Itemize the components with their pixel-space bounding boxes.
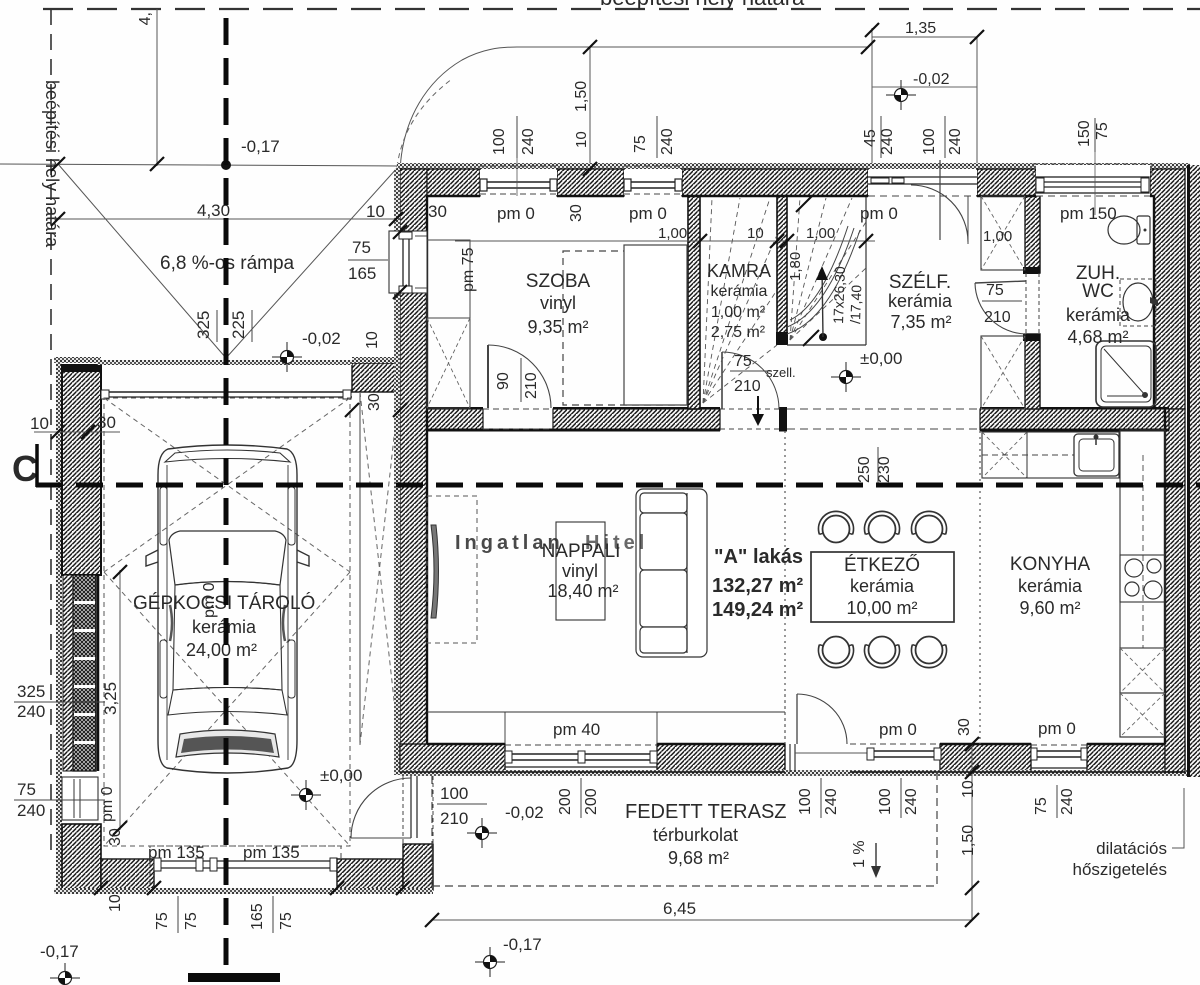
parking X dashes upper: [104, 398, 350, 572]
svg-text:200: 200: [557, 788, 574, 815]
szoba/kamra wall: [688, 196, 700, 409]
svg-text:4,68 m²: 4,68 m²: [1067, 327, 1128, 347]
svg-text:325: 325: [194, 311, 213, 339]
stair tick marks: [796, 196, 812, 212]
svg-text:9,60 m²: 9,60 m²: [1019, 598, 1080, 618]
kitchen right counter: [1120, 430, 1165, 737]
svg-text:C: C: [12, 448, 38, 489]
entry closet upper: [981, 196, 1025, 270]
svg-text:Ingatlan: Ingatlan: [455, 532, 564, 554]
garage top wall right stub: [352, 363, 400, 392]
top wall pier 5 / right corner: [1150, 169, 1185, 409]
svg-text:vinyl: vinyl: [540, 293, 576, 313]
level marker +-0,00 garage: [291, 780, 321, 810]
svg-text:10,00 m²: 10,00 m²: [846, 598, 917, 618]
svg-text:7,35 m²: 7,35 m²: [890, 312, 951, 332]
svg-text:pm 135: pm 135: [243, 843, 300, 862]
garage bottom-left wall corner: [62, 824, 101, 890]
svg-text:beépítési hely határa: beépítési hely határa: [600, 0, 805, 10]
svg-text:pm 0: pm 0: [879, 720, 917, 739]
svg-text:75: 75: [1033, 797, 1050, 815]
stair walk line with arrow: [819, 333, 827, 341]
section line C horizontal: [36, 483, 1200, 488]
svg-text:/17,40: /17,40: [847, 284, 864, 324]
svg-text:75: 75: [17, 780, 36, 799]
parking space dashed outline: [104, 398, 350, 846]
bottom wall pier B: [657, 744, 785, 772]
car wheels: [160, 487, 167, 545]
svg-text:30: 30: [428, 202, 447, 221]
top wall pier 4: [977, 169, 1036, 196]
level marker -0,02 garage top: [272, 342, 302, 372]
svg-text:szell.: szell.: [766, 365, 796, 380]
svg-text:210: 210: [734, 378, 761, 395]
kamra area dim line: [455, 240, 875, 242]
terrace window pm0 100/240: [850, 743, 940, 745]
svg-text:WC: WC: [1082, 281, 1114, 302]
garage bottom windows pm135: [150, 846, 341, 890]
svg-text:210: 210: [984, 309, 1011, 326]
svg-text:kerámia: kerámia: [1018, 576, 1083, 596]
svg-text:75: 75: [278, 912, 295, 930]
top wall pier 3: [682, 169, 868, 196]
svg-text:1,35: 1,35: [905, 20, 936, 37]
car windshield front: [168, 688, 287, 716]
svg-text:240: 240: [823, 788, 840, 815]
entry door leaf + swing: [939, 160, 941, 240]
svg-text:SZOBA: SZOBA: [526, 271, 591, 292]
level marker +-0,00 szelf: [831, 362, 861, 392]
svg-text:4,: 4,: [137, 12, 154, 25]
garage left outer wall: [56, 359, 62, 894]
ramp V right diagonal: [226, 167, 398, 358]
left exterior wall main: [400, 292, 427, 745]
svg-text:vinyl: vinyl: [562, 561, 598, 581]
interior wall band segment A (szoba left): [427, 409, 483, 430]
window pm150 150/75 bath: [1036, 165, 1150, 196]
entry door 1,35 opening: [868, 170, 977, 195]
entry closet lower: [981, 336, 1025, 409]
right bath wall inner face: [1153, 196, 1155, 409]
etkezo chairs top row: [819, 511, 947, 667]
level marker -0,02 entry top: [886, 80, 916, 110]
svg-text:45: 45: [862, 129, 879, 147]
garage bottom wall segment: [101, 859, 154, 890]
svg-text:100: 100: [921, 128, 938, 155]
svg-text:térburkolat: térburkolat: [653, 825, 738, 845]
svg-text:1,00 m²: 1,00 m²: [711, 304, 766, 321]
thick inner face lines of band: [427, 429, 720, 432]
svg-text:2,75 m²: 2,75 m²: [711, 324, 766, 341]
nappali/etkezo dotted line: [784, 431, 786, 744]
svg-text:132,27 m²: 132,27 m²: [712, 575, 804, 597]
bath door 75/210 leaf+arc: [975, 283, 1026, 334]
svg-text:pm 40: pm 40: [553, 720, 600, 739]
left wall insulation: [394, 169, 400, 775]
szellozo vent arrow: [757, 396, 759, 424]
parking X dashes lower: [104, 572, 350, 846]
svg-text:240: 240: [520, 128, 537, 155]
svg-text:dilatációs: dilatációs: [1096, 839, 1167, 858]
property boundary left dashed line: [50, 9, 52, 858]
svg-text:149,24 m²: 149,24 m²: [712, 599, 804, 621]
svg-text:30: 30: [568, 204, 585, 222]
svg-text:75: 75: [352, 238, 371, 257]
svg-text:10: 10: [747, 225, 764, 242]
stair fan dashed lines stairwell: [790, 198, 800, 340]
kitchen sink: [1074, 434, 1119, 476]
sofa: [636, 489, 707, 657]
insulation band top: [397, 163, 1190, 169]
svg-text:1,50: 1,50: [960, 825, 977, 856]
svg-text:75: 75: [986, 282, 1004, 299]
svg-text:100: 100: [491, 128, 508, 155]
tv: [431, 525, 439, 618]
dim 1,35 entry: [871, 28, 873, 168]
stair winder curves: [787, 230, 860, 334]
svg-text:10: 10: [960, 780, 977, 798]
svg-text:24,00 m²: 24,00 m²: [186, 640, 257, 660]
svg-text:-0,17: -0,17: [40, 942, 79, 961]
bottom wall inner faces: [427, 743, 505, 745]
dim 4,30 line: [54, 218, 400, 220]
svg-text:Hitel: Hitel: [585, 532, 648, 554]
svg-text:325: 325: [17, 682, 45, 701]
window pm0 75/240 kamra: [624, 170, 682, 195]
interior wall band segment B: [553, 409, 720, 430]
top wall inner face lines: [427, 195, 480, 197]
coffee table: [556, 522, 605, 620]
etkezo table: [811, 552, 954, 622]
konyha window pm0 75/240: [1031, 744, 1087, 746]
svg-text:9,35 m²: 9,35 m²: [527, 317, 588, 337]
svg-text:pm 0: pm 0: [629, 204, 667, 223]
svg-text:pm 150: pm 150: [1060, 204, 1117, 223]
svg-text:10: 10: [107, 894, 124, 912]
svg-text:6,45: 6,45: [663, 899, 696, 918]
svg-text:pm 75: pm 75: [460, 247, 477, 292]
car roof lines: [173, 582, 282, 691]
bottom wall pier D / right corner: [1087, 744, 1185, 772]
svg-text:240: 240: [17, 702, 45, 721]
garage door track double line: [101, 391, 352, 393]
car front grille: [176, 730, 279, 757]
svg-text:1 %: 1 %: [851, 840, 868, 868]
svg-text:9,68 m²: 9,68 m²: [668, 848, 729, 868]
svg-text:"A" lakás: "A" lakás: [714, 546, 803, 568]
svg-text:75: 75: [632, 135, 649, 153]
svg-text:210: 210: [440, 809, 468, 828]
fedett terasz dashed outline: [431, 776, 433, 886]
dim 6,45: [432, 919, 972, 921]
svg-text:18,40 m²: 18,40 m²: [547, 581, 618, 601]
hob: [1120, 555, 1165, 602]
dim extension vertical x=157: [156, 9, 158, 166]
level line at entry: [872, 86, 977, 88]
dimension tick marks: [51, 23, 984, 927]
interior wall band segment C (bath+kitchen): [980, 409, 1169, 430]
dashed sight curve at house corner: [397, 79, 452, 167]
garage bottom wall right corner block: [403, 844, 433, 890]
svg-text:-0,17: -0,17: [241, 137, 280, 156]
svg-text:100: 100: [440, 784, 468, 803]
svg-text:75: 75: [734, 353, 752, 370]
bottom wall pier C: [940, 744, 1031, 772]
svg-text:3,25: 3,25: [101, 682, 120, 715]
svg-text:100: 100: [797, 788, 814, 815]
svg-text:pm 0: pm 0: [99, 786, 116, 822]
level marker -0,17 bottom center: [475, 947, 505, 977]
svg-text:10: 10: [366, 202, 385, 221]
svg-text:30: 30: [956, 718, 973, 736]
window pm0 100/240 szoba: [480, 170, 557, 195]
tv cabinet dashed: [427, 496, 477, 643]
etkezo chairs bottom row: [823, 637, 850, 664]
svg-text:-0,17: -0,17: [503, 935, 542, 954]
svg-text:±0,00: ±0,00: [320, 766, 362, 785]
side strip X dashes: [360, 392, 399, 745]
svg-text:75: 75: [183, 912, 200, 930]
etkezo/konyha dotted line: [979, 431, 981, 744]
svg-text:pm 0: pm 0: [860, 204, 898, 223]
window 75/165 szoba left: [400, 232, 427, 292]
level marker -0,02 terasz: [467, 818, 497, 848]
svg-text:hőszigetelés: hőszigetelés: [1072, 860, 1167, 879]
szoba closet left: [427, 240, 470, 408]
kamra door 75/210 leaf+arc: [721, 352, 723, 409]
svg-text:-0,02: -0,02: [913, 71, 950, 88]
szoba bed dashed zone: [563, 251, 686, 405]
terrace passage door 100/210: [402, 776, 404, 845]
entry/bath wall upper: [1025, 196, 1040, 273]
top wall pier 1: [400, 169, 480, 232]
car door handles: [170, 605, 172, 641]
dilatation neighbour wall: [1187, 165, 1190, 777]
property boundary top dashed line: [43, 8, 1200, 10]
car rear window: [169, 531, 286, 585]
svg-text:240: 240: [1059, 788, 1076, 815]
svg-text:10: 10: [573, 131, 590, 148]
svg-text:240: 240: [659, 128, 676, 155]
svg-text:pm 135: pm 135: [148, 843, 205, 862]
stair fan dashed lines kamra: [703, 198, 866, 403]
svg-text:KAMRA: KAMRA: [707, 261, 771, 281]
svg-text:75: 75: [154, 912, 171, 930]
washbasin: [1120, 279, 1156, 326]
svg-text:kerámia: kerámia: [711, 283, 768, 300]
toilet: [1108, 216, 1140, 244]
svg-text:1,00: 1,00: [658, 225, 687, 242]
svg-text:1,00: 1,00: [806, 225, 835, 242]
svg-text:230: 230: [876, 456, 893, 483]
car side lines: [166, 465, 168, 760]
dot marker at axis: [221, 160, 231, 170]
svg-text:1,80: 1,80: [787, 252, 804, 281]
svg-text:KONYHA: KONYHA: [1010, 554, 1091, 575]
section line vertical axis: [224, 18, 229, 972]
side strip boundary line: [359, 392, 361, 745]
svg-text:±0,00: ±0,00: [860, 349, 902, 368]
svg-text:kerámia: kerámia: [888, 291, 953, 311]
svg-text:240: 240: [947, 128, 964, 155]
terrace door 100/240 etkezo: [784, 694, 786, 744]
bottom wall outer edge: [400, 771, 785, 773]
svg-text:-0,02: -0,02: [302, 329, 341, 348]
svg-text:100: 100: [877, 788, 894, 815]
garage left window 75/240: [62, 777, 98, 820]
svg-text:240: 240: [879, 128, 896, 155]
svg-text:kerámia: kerámia: [1066, 305, 1131, 325]
svg-text:150: 150: [1076, 120, 1093, 147]
left exterior wall upper: [400, 169, 427, 232]
car side mirrors: [146, 550, 158, 566]
svg-text:1,50: 1,50: [573, 81, 590, 112]
dim 3,25 garage: [119, 570, 121, 830]
svg-text:pm 0: pm 0: [497, 204, 535, 223]
svg-text:75: 75: [1094, 122, 1111, 140]
section line end bar bottom: [188, 973, 280, 982]
svg-text:225: 225: [229, 311, 248, 339]
svg-text:200: 200: [583, 788, 600, 815]
svg-text:17x26,30: 17x26,30: [830, 266, 848, 324]
shower tray: [1096, 341, 1156, 407]
bottom wall pier A (with left corner): [400, 744, 505, 772]
level marker -0,17 bottom left: [50, 963, 80, 985]
left wall inner face: [426, 196, 428, 744]
entry/bath wall lower: [1025, 334, 1040, 409]
kamra door cap black: [779, 407, 787, 431]
szoba bed: [624, 245, 687, 405]
svg-text:90: 90: [495, 372, 512, 390]
svg-text:250: 250: [856, 456, 873, 483]
svg-text:240: 240: [903, 788, 920, 815]
kitchen top counter: [982, 432, 1119, 478]
top wall pier 2: [557, 169, 624, 196]
szoba door 90/210 leaf+arc: [487, 345, 489, 408]
stairs bottom boundary line: [787, 344, 866, 346]
right exterior wall kitchen part: [1165, 409, 1185, 772]
ramp horizontal line y=164: [0, 164, 398, 166]
szoba door opening dashes: [483, 408, 553, 410]
bottom insulation band: [400, 770, 1190, 776]
svg-text:165: 165: [348, 264, 376, 283]
nappali parapet line: [427, 711, 785, 713]
dashed lines across wide opening szelf->nappali: [787, 408, 980, 410]
svg-text:10: 10: [364, 331, 381, 349]
svg-text:10: 10: [30, 414, 49, 433]
svg-text:FEDETT TERASZ: FEDETT TERASZ: [625, 801, 787, 823]
svg-text:30: 30: [366, 393, 383, 411]
svg-text:kerámia: kerámia: [850, 576, 915, 596]
garage bottom wall right segment: [337, 859, 403, 890]
svg-text:210: 210: [523, 372, 540, 399]
svg-text:pm 0: pm 0: [201, 582, 218, 618]
kamra/stairs wall: [777, 196, 787, 336]
ramp V left diagonal: [58, 164, 226, 358]
window pm40 200/200: [505, 744, 657, 746]
svg-text:SZÉLF.: SZÉLF.: [889, 272, 951, 293]
car body: [146, 445, 309, 773]
svg-text:pm 0: pm 0: [1038, 719, 1076, 738]
svg-text:240: 240: [17, 801, 45, 820]
dim 1,50 top (driveway): [589, 47, 591, 168]
svg-text:-0,02: -0,02: [505, 803, 544, 822]
svg-text:1,00: 1,00: [983, 228, 1012, 245]
garage door lintel dashed: [97, 360, 352, 365]
svg-text:30: 30: [97, 413, 116, 432]
right kitchen wall inner face: [1164, 409, 1166, 744]
svg-text:165: 165: [249, 903, 266, 930]
kitchen lower cabinets X: [1120, 648, 1165, 693]
garage sectional door 325/240: [63, 575, 73, 771]
driveway curve to entry: [400, 47, 868, 172]
svg-text:ÉTKEZŐ: ÉTKEZŐ: [844, 554, 920, 576]
svg-text:30: 30: [107, 828, 124, 846]
